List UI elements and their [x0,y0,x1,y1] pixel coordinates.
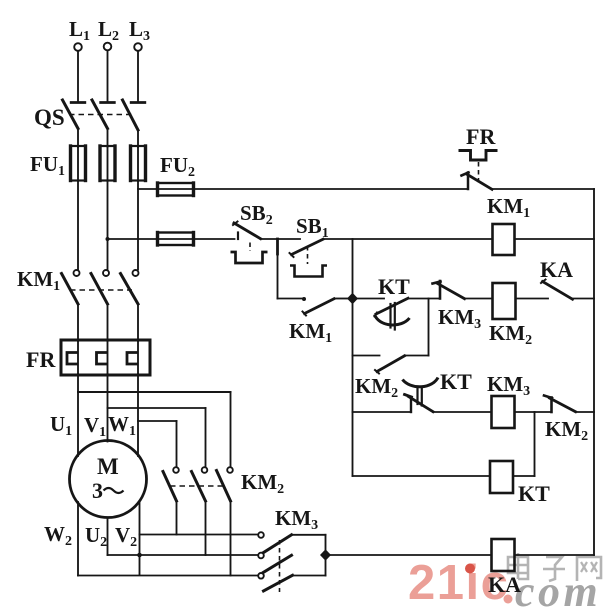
svg-text:KM2: KM2 [545,417,588,444]
wire FU1 pole3 down [137,181,139,270]
wire KM1 pole2 down [107,304,109,341]
wire FU1 pole1 down [77,181,79,270]
wire L2 drop [107,51,109,102]
svg-text:FU1: FU1 [30,152,65,179]
svg-text:SB2: SB2 [240,201,273,228]
wire QS to FU1 pole1 [77,129,79,148]
svg-text:W2: W2 [44,522,72,549]
wire KM1 coil to rail [515,238,595,240]
wire QS to FU1 pole3 [137,130,139,147]
wire QS to FU1 pole2 [107,129,109,148]
wire branch to KM1 aux [277,254,279,299]
svg-text:KM1: KM1 [289,319,332,346]
svg-text:U1: U1 [50,412,72,439]
svg-text:KM3: KM3 [438,305,481,332]
wire V2 down [139,502,141,575]
svg-text:L2: L2 [98,17,119,44]
junction KM3 output [320,549,331,561]
wire L3 drop [137,51,139,101]
wire rung4 left [353,411,412,413]
svg-text:KT: KT [440,369,472,394]
wire branch phase1 to KM2 [78,391,231,393]
wire line2 to KM3 [108,554,259,556]
wire KM2 pole1 down [176,501,178,535]
motor M 3-phase [70,441,147,518]
wire KM2 pole3 down [230,501,232,576]
wire branch phase2 to KM2 [108,407,206,409]
watermark .com [504,595,513,604]
wire SB1 to KM1 coil [323,238,492,240]
fuse FU1 pole3 [137,146,139,181]
wire right rail [593,189,595,555]
wire FU1 pole2 down [107,181,109,270]
switch QS pole 1 [71,101,85,104]
wire line1 to KM3 [140,534,259,536]
wire FR pole3 to motor [137,374,139,456]
svg-text:SB1: SB1 [296,214,329,241]
wire KA coil to rail [515,554,595,556]
wire FR to right rail [492,188,594,190]
fuse FU2 lower [158,233,194,246]
fuse FU1 pole2 [107,146,109,181]
wire rung5 [353,475,491,477]
svg-text:V1: V1 [84,413,106,440]
svg-text:KM2: KM2 [241,470,284,497]
svg-text:QS: QS [34,105,65,130]
wire SB2 to SB1 [261,238,301,240]
svg-text:KA: KA [488,572,521,597]
junction V2 line2 [137,553,142,558]
svg-text:U2: U2 [85,523,107,550]
svg-text:L1: L1 [69,17,90,44]
wire rung6 [326,554,492,556]
wire FR pole2 to motor [107,374,109,442]
svg-text:FU2: FU2 [160,153,195,180]
svg-text:M: M [97,454,119,479]
wire control line1 [138,188,468,190]
wire FR pole1 to motor [77,374,79,456]
svg-text:KM3: KM3 [275,506,318,533]
fuse FU1 pole1 [77,146,79,181]
svg-text:KT: KT [518,481,550,506]
svg-text:KA: KA [540,257,573,282]
wire KM2 pole2 down [205,501,207,555]
svg-text:W1: W1 [108,412,136,439]
wire branch phase3 to KM2 [138,420,177,422]
wire rung3 left [353,355,380,357]
wire U2 down [107,518,109,556]
watermark char zi [546,557,562,581]
wire KM3 pole1 out [292,534,326,536]
wire rung2 mid [408,298,440,300]
wire rung2 left [353,298,385,300]
svg-text:KM2: KM2 [489,321,532,348]
switch QS pole 3 [131,101,145,104]
wire L1 drop [77,51,79,101]
svg-text:KM1: KM1 [17,267,60,294]
wire line3 to KM3 [78,575,258,577]
wire KM1 pole1 down [77,304,79,341]
QS linkage [69,114,133,116]
svg-text:KM2: KM2 [355,374,398,401]
fuse FU2 upper [158,183,194,196]
wire control line2 [108,238,235,240]
svg-text:KM1: KM1 [487,194,530,221]
svg-text:FR: FR [466,124,496,149]
switch QS pole 2 [101,101,115,104]
wire KT coil up [513,475,535,477]
wire KM1 pole3 down [137,304,139,341]
svg-text:3: 3 [92,478,103,503]
svg-text:FR: FR [26,347,56,372]
wire branch around KT [428,299,430,356]
junction rail rung2 [347,293,358,305]
wire KM3 coil right [515,411,552,413]
wire left rail [352,239,354,476]
svg-text:com: com [515,567,601,609]
wire W2 down [77,502,79,576]
junction line2 [106,237,110,241]
wire KM2 coil to KA contact [516,298,549,300]
svg-text:KT: KT [378,274,410,299]
wire KM3 pole3 out [292,575,326,577]
watermark char dian [508,557,528,573]
watermark char wang [577,557,601,581]
svg-text:V2: V2 [115,523,137,550]
svg-text:L3: L3 [129,17,150,44]
